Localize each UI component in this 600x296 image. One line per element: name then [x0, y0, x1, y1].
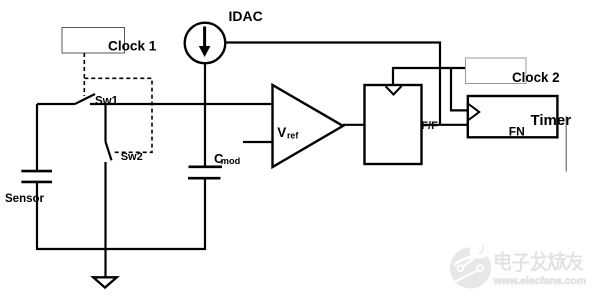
- svg-text:Sensor: Sensor: [5, 193, 45, 205]
- wire Sw2 lower contact to ground: [104, 162, 106, 278]
- comparator U1: [273, 85, 344, 167]
- watermark text: 电子发烧友 drawn as paths: [496, 252, 582, 271]
- svg-text:Sw1: Sw1: [95, 96, 119, 108]
- dashed box around Sw1/Sw2: [84, 78, 152, 152]
- Timer box: [468, 96, 558, 137]
- wire Sensor branch down: [36, 104, 38, 170]
- svg-text:Sw2: Sw2: [121, 151, 143, 163]
- flip-flop F/F box: [365, 85, 422, 164]
- wire comparator output: [343, 124, 364, 126]
- capacitor Cmod: [189, 166, 223, 169]
- svg-text:Timer: Timer: [531, 112, 572, 129]
- IDAC arrow: [203, 27, 206, 48]
- capacitor Sensor: [21, 170, 52, 173]
- clock source Clock 2: [466, 58, 527, 84]
- wire IDAC bottom to node: [204, 63, 206, 166]
- wire Clock2 branch to Timer clock: [451, 68, 468, 110]
- current source IDAC: [185, 23, 226, 64]
- wire IDAC output right: [226, 43, 441, 125]
- dashed control line Clock1 to Sw1: [83, 53, 85, 96]
- watermark logo circle: [450, 239, 496, 289]
- wire left branch to switch Sw1: [37, 103, 75, 105]
- switch Sw2 upper contact: [104, 104, 106, 141]
- wire flip-flop output to Timer: [422, 124, 468, 126]
- svg-text:Clock 1: Clock 1: [108, 38, 157, 53]
- wire Clock2 to flip-flop clock: [393, 68, 466, 85]
- svg-text:ref: ref: [287, 131, 298, 141]
- glyph 电: [496, 252, 510, 270]
- wire bottom rail: [37, 248, 205, 250]
- Timer clock triangle: [468, 104, 479, 121]
- glyph 子: [513, 255, 529, 272]
- glyph 烧: [549, 253, 566, 270]
- switch Sw2 blade: [105, 141, 111, 160]
- flip-flop clock notch: [386, 86, 402, 94]
- wire Cmod to bottom rail: [204, 179, 206, 250]
- clock source Clock 1: [62, 28, 125, 54]
- svg-text:mod: mod: [221, 156, 240, 166]
- svg-text:IDAC: IDAC: [229, 8, 263, 24]
- svg-text:www.elecfans.com: www.elecfans.com: [493, 276, 587, 287]
- wire Vref input: [243, 141, 273, 143]
- svg-text:FN: FN: [509, 125, 525, 139]
- switch Sw1 blade: [75, 94, 96, 104]
- wire main node: Sw1 to comparator: [90, 103, 273, 105]
- ground: [93, 277, 117, 287]
- svg-text:Clock 2: Clock 2: [512, 70, 560, 85]
- glyph 发: [532, 253, 547, 271]
- svg-text:V: V: [277, 125, 286, 140]
- stray cursor line below Timer: [565, 116, 567, 172]
- glyph 友: [567, 253, 583, 270]
- wire Sensor to bottom rail: [36, 183, 38, 250]
